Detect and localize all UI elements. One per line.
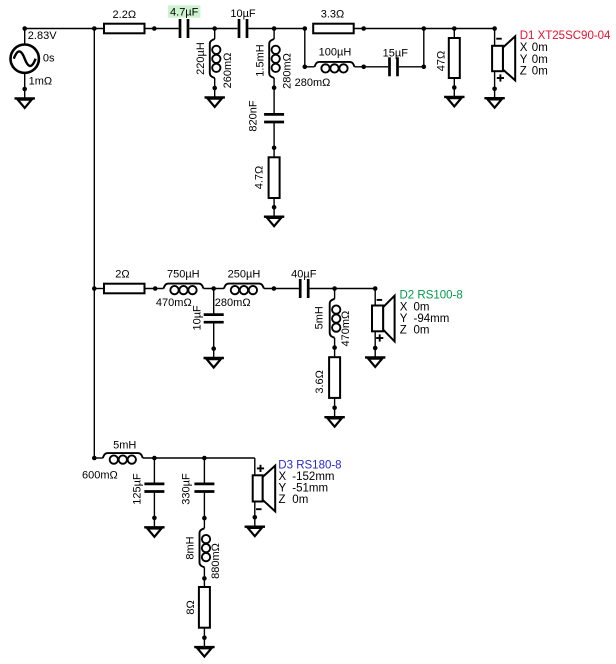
ground (125uF) — [144, 518, 164, 537]
svg-text:600mΩ: 600mΩ — [82, 469, 118, 481]
svg-text:0m: 0m — [292, 494, 308, 506]
svg-text:-94mm: -94mm — [414, 313, 450, 325]
wire parallel left drop — [304, 29, 306, 67]
speaker D1 — [492, 29, 515, 92]
svg-text:2.2Ω: 2.2Ω — [113, 9, 137, 21]
wire top row — [25, 28, 104, 30]
node parallel right top — [422, 26, 427, 31]
node bus bottom corner — [92, 456, 97, 461]
capacitor 4.7uF (highlighted) — [168, 5, 200, 38]
svg-text:D1 XT25SC90-04: D1 XT25SC90-04 — [520, 30, 611, 42]
svg-text:260mΩ: 260mΩ — [222, 53, 234, 89]
wire middle row — [94, 288, 104, 290]
label D2 Y — [400, 313, 450, 325]
capacitor 15uF — [390, 57, 398, 76]
label D1 Y — [520, 54, 548, 66]
wire 820nF to 4.7ohm — [272, 123, 277, 158]
capacitor 820nF — [264, 114, 284, 122]
label D1 Z — [520, 66, 548, 78]
node bus middle — [92, 286, 97, 291]
wire — [248, 28, 304, 30]
wire 4.7ohm to ground — [272, 198, 277, 210]
minus mark D3 — [256, 508, 262, 510]
wire — [143, 456, 255, 461]
svg-text:0m: 0m — [532, 54, 548, 66]
plus mark D2 — [376, 337, 383, 339]
wire — [189, 28, 237, 30]
svg-text:1.5mH: 1.5mH — [255, 44, 267, 76]
svg-text:47Ω: 47Ω — [436, 51, 448, 71]
wire 1.5mH to 820nF — [273, 88, 275, 114]
svg-text:10µF: 10µF — [192, 305, 204, 331]
wire — [145, 28, 179, 30]
svg-text:5mH: 5mH — [313, 306, 325, 329]
svg-text:8Ω: 8Ω — [185, 600, 197, 614]
wire — [204, 286, 224, 291]
node D2 corner — [373, 286, 378, 291]
wire 100uH to 15uF — [355, 65, 389, 70]
wire — [145, 286, 164, 291]
resistor 2.2ohm — [104, 24, 145, 34]
label D3 X — [279, 471, 335, 483]
svg-text:0m: 0m — [414, 301, 430, 313]
inductor 750uH — [164, 284, 204, 295]
wire — [264, 286, 299, 291]
label D1 X — [520, 42, 548, 54]
svg-text:470mΩ: 470mΩ — [156, 297, 192, 309]
svg-text:40µF: 40µF — [291, 269, 317, 281]
label D2 Z — [400, 325, 430, 337]
svg-text:0m: 0m — [532, 42, 548, 54]
ground (10uF mid) — [204, 349, 224, 368]
svg-text:2.83V: 2.83V — [28, 30, 57, 42]
wire parallel branch lower — [305, 66, 315, 68]
svg-text:D2 RS100-8: D2 RS100-8 — [400, 290, 463, 302]
svg-text:Y: Y — [520, 54, 528, 66]
resistor 47ohm shunt — [449, 29, 460, 90]
svg-text:280mΩ: 280mΩ — [215, 297, 251, 309]
svg-text:Z: Z — [520, 66, 527, 78]
svg-text:Z: Z — [279, 494, 286, 506]
wire after 3.3ohm — [354, 28, 495, 30]
svg-text:Z: Z — [400, 325, 407, 337]
svg-text:3.3Ω: 3.3Ω — [321, 8, 345, 20]
node 47ohm tap — [452, 26, 457, 31]
svg-text:330µF: 330µF — [180, 473, 192, 505]
resistor 2ohm — [104, 284, 145, 294]
ground (8ohm) — [194, 638, 214, 657]
inductor 5mH shunt (mid) — [330, 289, 341, 350]
node 1.5mH tap — [272, 26, 277, 31]
label D3 Z — [279, 494, 309, 506]
capacitor 125uF shunt — [144, 458, 164, 520]
svg-text:0m: 0m — [532, 66, 548, 78]
svg-text:0s: 0s — [43, 53, 55, 65]
node D1 corner — [492, 26, 497, 31]
svg-text:X: X — [520, 42, 528, 54]
wire — [310, 288, 376, 290]
svg-text:Y: Y — [400, 313, 408, 325]
svg-text:820nF: 820nF — [248, 100, 260, 131]
svg-text:470mΩ: 470mΩ — [340, 311, 352, 347]
svg-text:-51mm: -51mm — [292, 482, 328, 494]
wire 15uF to parallel right — [399, 29, 426, 70]
svg-text:4.7Ω: 4.7Ω — [253, 166, 265, 190]
svg-text:220µH: 220µH — [195, 42, 207, 75]
svg-text:280mΩ: 280mΩ — [281, 53, 293, 89]
plus mark D3 — [257, 467, 264, 469]
svg-text:X: X — [279, 471, 287, 483]
svg-text:880mΩ: 880mΩ — [210, 543, 222, 579]
svg-text:1mΩ: 1mΩ — [29, 76, 53, 88]
svg-text:10µF: 10µF — [230, 8, 256, 20]
ground (3.6ohm) — [324, 408, 344, 427]
inductor 220uH shunt — [210, 29, 221, 91]
plus mark D1 — [497, 77, 504, 79]
wire main bus vertical — [93, 29, 95, 459]
svg-text:100µH: 100µH — [319, 46, 352, 58]
svg-text:D3 RS180-8: D3 RS180-8 — [278, 459, 341, 471]
ground (220uH) — [205, 88, 225, 107]
svg-text:250µH: 250µH — [228, 269, 261, 281]
svg-text:-152mm: -152mm — [292, 471, 334, 483]
svg-text:2Ω: 2Ω — [115, 269, 129, 281]
capacitor 330uF shunt — [194, 458, 214, 520]
capacitor 40uF — [300, 279, 308, 298]
label D2 X — [400, 301, 430, 313]
ground (47ohm) — [444, 88, 464, 107]
speaker D2 — [372, 289, 395, 351]
speaker D3 — [253, 458, 276, 520]
voltage source V1 2.83V — [11, 26, 39, 91]
inductor 1.5mH shunt — [269, 29, 280, 90]
svg-text:750µH: 750µH — [167, 269, 200, 281]
node after 2.2ohm — [152, 26, 157, 31]
ground (4.7ohm) — [264, 207, 284, 226]
svg-text:5mH: 5mH — [113, 439, 136, 451]
minus mark D2 — [377, 299, 383, 301]
svg-text:3.6Ω: 3.6Ω — [314, 370, 326, 394]
minus mark D1 — [496, 38, 502, 40]
node 220uH tap — [212, 26, 217, 31]
svg-text:Y: Y — [279, 482, 287, 494]
inductor 5mH (bottom) — [103, 453, 143, 464]
svg-text:125µF: 125µF — [131, 473, 143, 505]
capacitor 10uF shunt — [204, 289, 224, 351]
capacitor 10uF — [239, 19, 247, 38]
svg-text:4.7µF: 4.7µF — [170, 7, 199, 19]
inductor 250uH — [224, 284, 264, 295]
ground (D2) — [365, 348, 385, 367]
resistor 8ohm — [199, 578, 210, 640]
ground (D3) — [245, 517, 265, 536]
svg-text:15µF: 15µF — [383, 47, 409, 59]
node 5mH tap — [332, 286, 337, 291]
resistor 3.6ohm — [329, 348, 340, 411]
ground (D1) — [484, 89, 504, 108]
inductor 100uH — [315, 62, 355, 73]
resistor 3.3ohm — [313, 24, 354, 34]
wire bottom row — [94, 457, 103, 459]
node parallel left — [303, 26, 308, 31]
ground (source) — [15, 89, 35, 108]
svg-text:0m: 0m — [414, 325, 430, 337]
node parallel left bottom — [303, 65, 308, 70]
node bus top — [92, 26, 97, 31]
node after 3.3ohm — [361, 26, 366, 31]
resistor 4.7ohm — [269, 157, 280, 198]
svg-text:280mΩ: 280mΩ — [295, 77, 331, 89]
inductor 8mH — [200, 518, 211, 581]
label D3 Y — [279, 482, 329, 494]
svg-text:8mH: 8mH — [184, 536, 196, 559]
svg-text:X: X — [400, 301, 408, 313]
